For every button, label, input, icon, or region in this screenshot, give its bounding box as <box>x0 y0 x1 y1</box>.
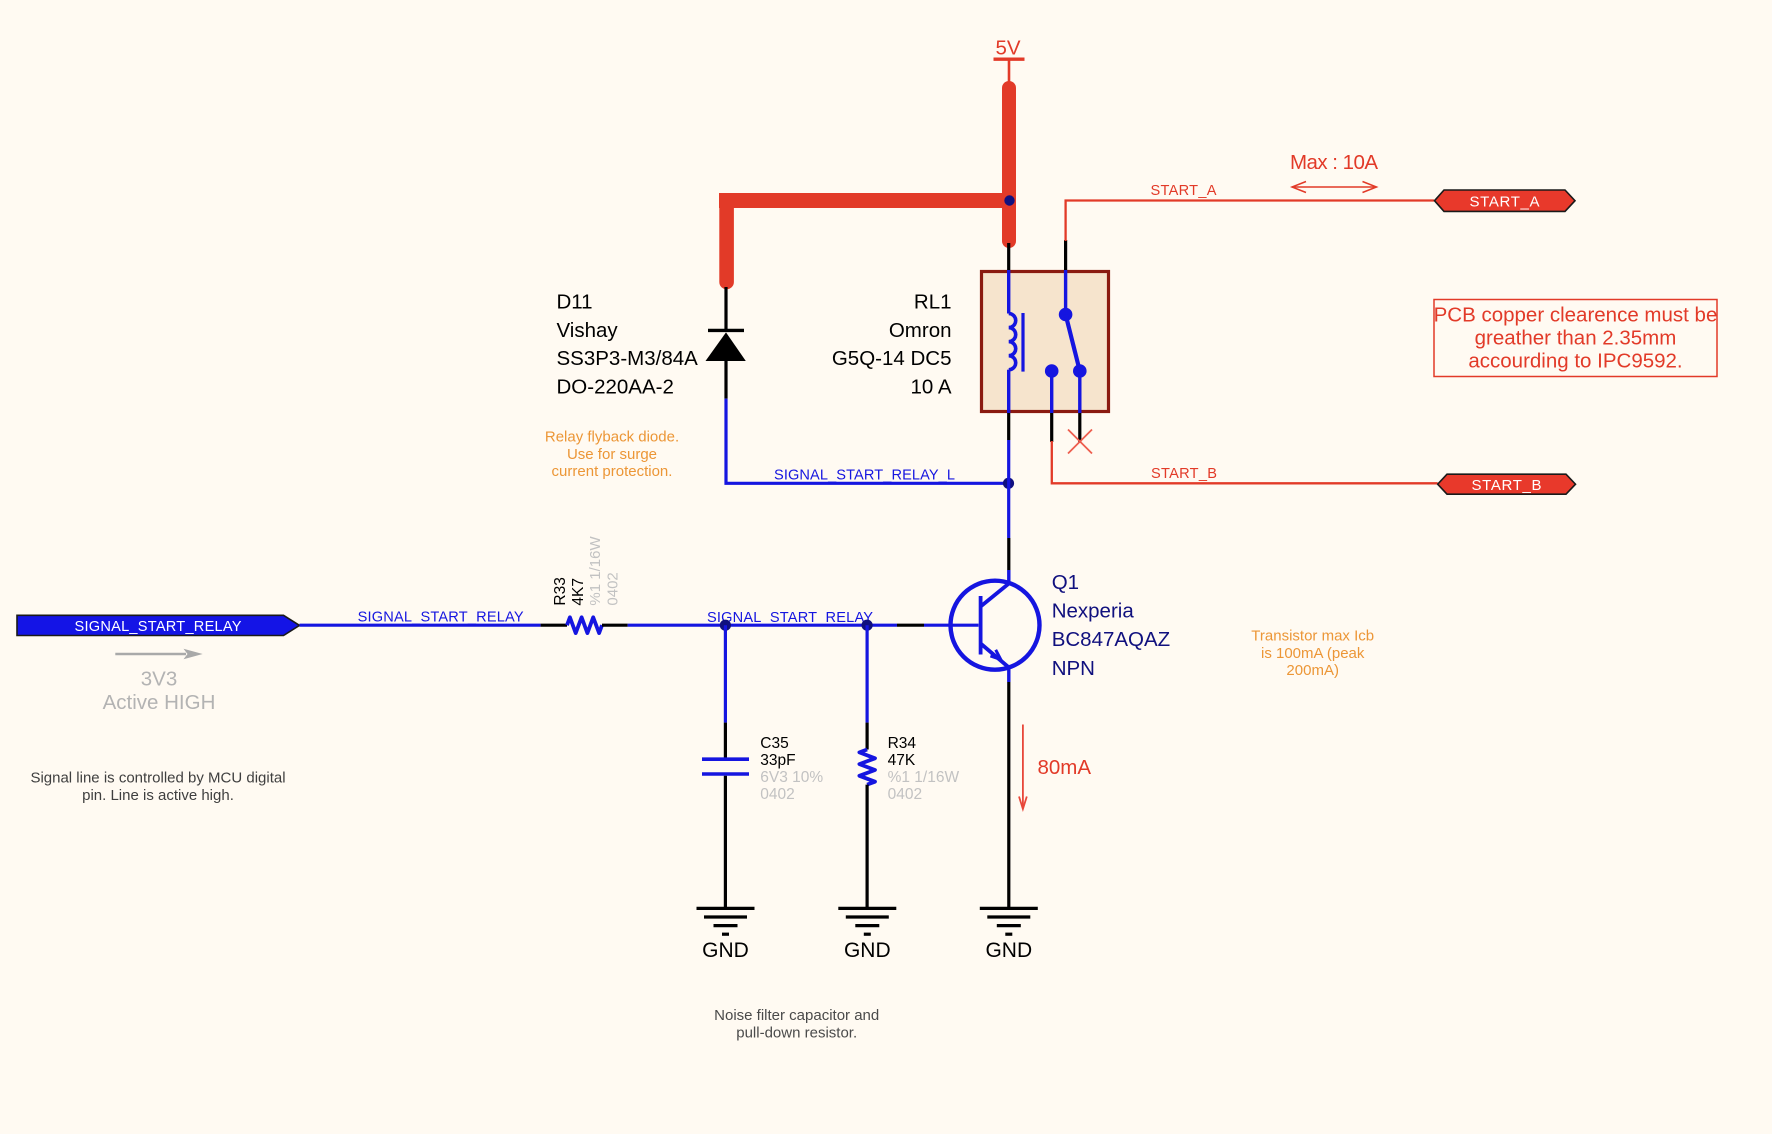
svg-text:Max : 10A: Max : 10A <box>1290 151 1378 174</box>
svg-text:Q1: Q1 <box>1052 571 1079 594</box>
svg-text:START_A: START_A <box>1151 183 1217 199</box>
svg-text:4K7: 4K7 <box>570 578 587 606</box>
svg-text:C35: C35 <box>760 735 788 752</box>
svg-text:%1 1/16W: %1 1/16W <box>888 769 960 786</box>
relay RL1 coil <box>1009 270 1023 413</box>
svg-text:D11: D11 <box>557 291 593 314</box>
svg-text:Active HIGH: Active HIGH <box>103 691 216 714</box>
note relay flyback diode (orange) <box>545 429 679 481</box>
transistor collector wire <box>1007 538 1010 570</box>
svg-text:current protection.: current protection. <box>552 463 673 480</box>
wire diode to net SIGNAL_START_RELAY_L <box>726 399 1009 484</box>
svg-text:SS3P3-M3/84A: SS3P3-M3/84A <box>557 347 699 370</box>
port flag START_A <box>1435 190 1576 211</box>
svg-text:Noise filter capacitor and: Noise filter capacitor and <box>714 1007 879 1024</box>
svg-text:Signal line is controlled by M: Signal line is controlled by MCU digital <box>30 769 285 786</box>
svg-text:R34: R34 <box>888 735 917 752</box>
svg-text:10 A: 10 A <box>910 375 951 398</box>
svg-text:%1 1/16W: %1 1/16W <box>587 536 604 606</box>
wire START_A <box>1066 201 1434 242</box>
svg-text:Relay flyback diode.: Relay flyback diode. <box>545 429 679 446</box>
svg-text:START_A: START_A <box>1470 193 1540 210</box>
svg-text:accourding to IPC9592.: accourding to IPC9592. <box>1468 349 1682 372</box>
svg-text:0402: 0402 <box>605 572 622 605</box>
power symbol 5V <box>994 37 1025 89</box>
label C35 value block <box>760 735 823 803</box>
relay RL1 pins <box>1009 240 1080 443</box>
svg-text:BC847AQAZ: BC847AQAZ <box>1052 628 1171 651</box>
svg-text:is 100mA (peak: is 100mA (peak <box>1261 645 1365 662</box>
svg-text:Transistor max Icb: Transistor max Icb <box>1251 628 1374 645</box>
relay RL1 switch <box>1045 270 1087 413</box>
relay RL1 body <box>982 272 1109 412</box>
resistor R34 <box>859 625 875 908</box>
node junction at C35 <box>720 620 731 631</box>
svg-text:NPN: NPN <box>1052 657 1095 680</box>
transistor base pin stub <box>897 624 924 627</box>
svg-text:SIGNAL_START_RELAY: SIGNAL_START_RELAY <box>707 610 873 626</box>
wire R33 to transistor base <box>628 624 897 627</box>
svg-text:Nexperia: Nexperia <box>1052 600 1135 623</box>
svg-text:GND: GND <box>702 939 749 962</box>
wire 5V bus horizontal thick <box>719 193 1016 208</box>
wire relay coil to collector <box>1007 440 1010 538</box>
label R34 value block <box>888 735 960 803</box>
svg-text:GND: GND <box>985 939 1032 962</box>
wire SIGNAL_START_RELAY from flag to R33 <box>300 624 541 627</box>
double arrow max current <box>1292 182 1377 193</box>
svg-text:3V3: 3V3 <box>141 668 177 691</box>
arrow signal direction (gray) <box>115 649 202 659</box>
svg-text:80mA: 80mA <box>1038 756 1092 779</box>
svg-text:6V3 10%: 6V3 10% <box>760 769 823 786</box>
port flag SIGNAL_START_RELAY (input) <box>17 615 300 635</box>
port flag START_B <box>1438 474 1576 494</box>
svg-text:Omron: Omron <box>889 319 952 342</box>
svg-text:33pF: 33pF <box>760 752 795 769</box>
label RL1 value block <box>832 291 952 399</box>
svg-text:greather than 2.35mm: greather than 2.35mm <box>1475 327 1677 350</box>
svg-text:SIGNAL_START_RELAY_L: SIGNAL_START_RELAY_L <box>774 468 955 484</box>
wire 5V bus left drop thick <box>719 201 734 283</box>
transistor Q1 <box>951 570 1040 682</box>
node junction on 5V bus <box>1004 195 1014 205</box>
note signal line MCU (dark gray) <box>30 769 285 804</box>
ground GND2 <box>838 908 896 934</box>
ground GND3 <box>980 908 1038 934</box>
diode D11 <box>706 287 746 399</box>
resistor R33 <box>541 617 628 633</box>
svg-text:PCB copper clearence must be: PCB copper clearence must be <box>1434 304 1718 327</box>
svg-text:RL1: RL1 <box>914 291 952 314</box>
note PCB copper clearance box <box>1434 300 1718 377</box>
note transistor max Icb (orange) <box>1251 628 1374 680</box>
svg-text:DO-220AA-2: DO-220AA-2 <box>557 375 674 398</box>
svg-text:START_B: START_B <box>1472 477 1542 494</box>
svg-text:0402: 0402 <box>888 786 922 803</box>
svg-text:pull-down resistor.: pull-down resistor. <box>736 1024 857 1041</box>
svg-text:GND: GND <box>844 939 891 962</box>
label D11 value block <box>557 291 699 399</box>
svg-text:SIGNAL_START_RELAY: SIGNAL_START_RELAY <box>75 619 242 635</box>
ground GND1 <box>697 908 755 934</box>
node junction SIGNAL_START_RELAY_L <box>1003 478 1014 489</box>
note 3V3 Active HIGH (gray) <box>103 668 216 714</box>
node junction at R34 <box>862 620 873 631</box>
svg-text:SIGNAL_START_RELAY: SIGNAL_START_RELAY <box>358 609 524 625</box>
wire 5V bus vertical thick <box>1002 88 1016 241</box>
label Q1 value block <box>1052 571 1171 680</box>
svg-text:G5Q-14 DC5: G5Q-14 DC5 <box>832 347 952 370</box>
svg-text:START_B: START_B <box>1151 466 1217 482</box>
svg-text:Use for surge: Use for surge <box>567 446 657 463</box>
note noise filter (dark gray) <box>714 1007 879 1041</box>
current arrow 80mA <box>1019 725 1027 810</box>
no-connect X on relay pin <box>1068 430 1092 454</box>
svg-text:47K: 47K <box>888 752 916 769</box>
capacitor C35 <box>702 625 749 908</box>
svg-text:5V: 5V <box>995 37 1020 60</box>
wire START_B <box>1052 441 1438 483</box>
transistor emitter wire to GND <box>1007 682 1010 909</box>
svg-text:pin. Line is active high.: pin. Line is active high. <box>82 787 234 804</box>
svg-text:Vishay: Vishay <box>557 319 619 342</box>
svg-text:0402: 0402 <box>760 786 794 803</box>
svg-text:R33: R33 <box>552 577 569 605</box>
svg-text:200mA): 200mA) <box>1286 662 1339 679</box>
